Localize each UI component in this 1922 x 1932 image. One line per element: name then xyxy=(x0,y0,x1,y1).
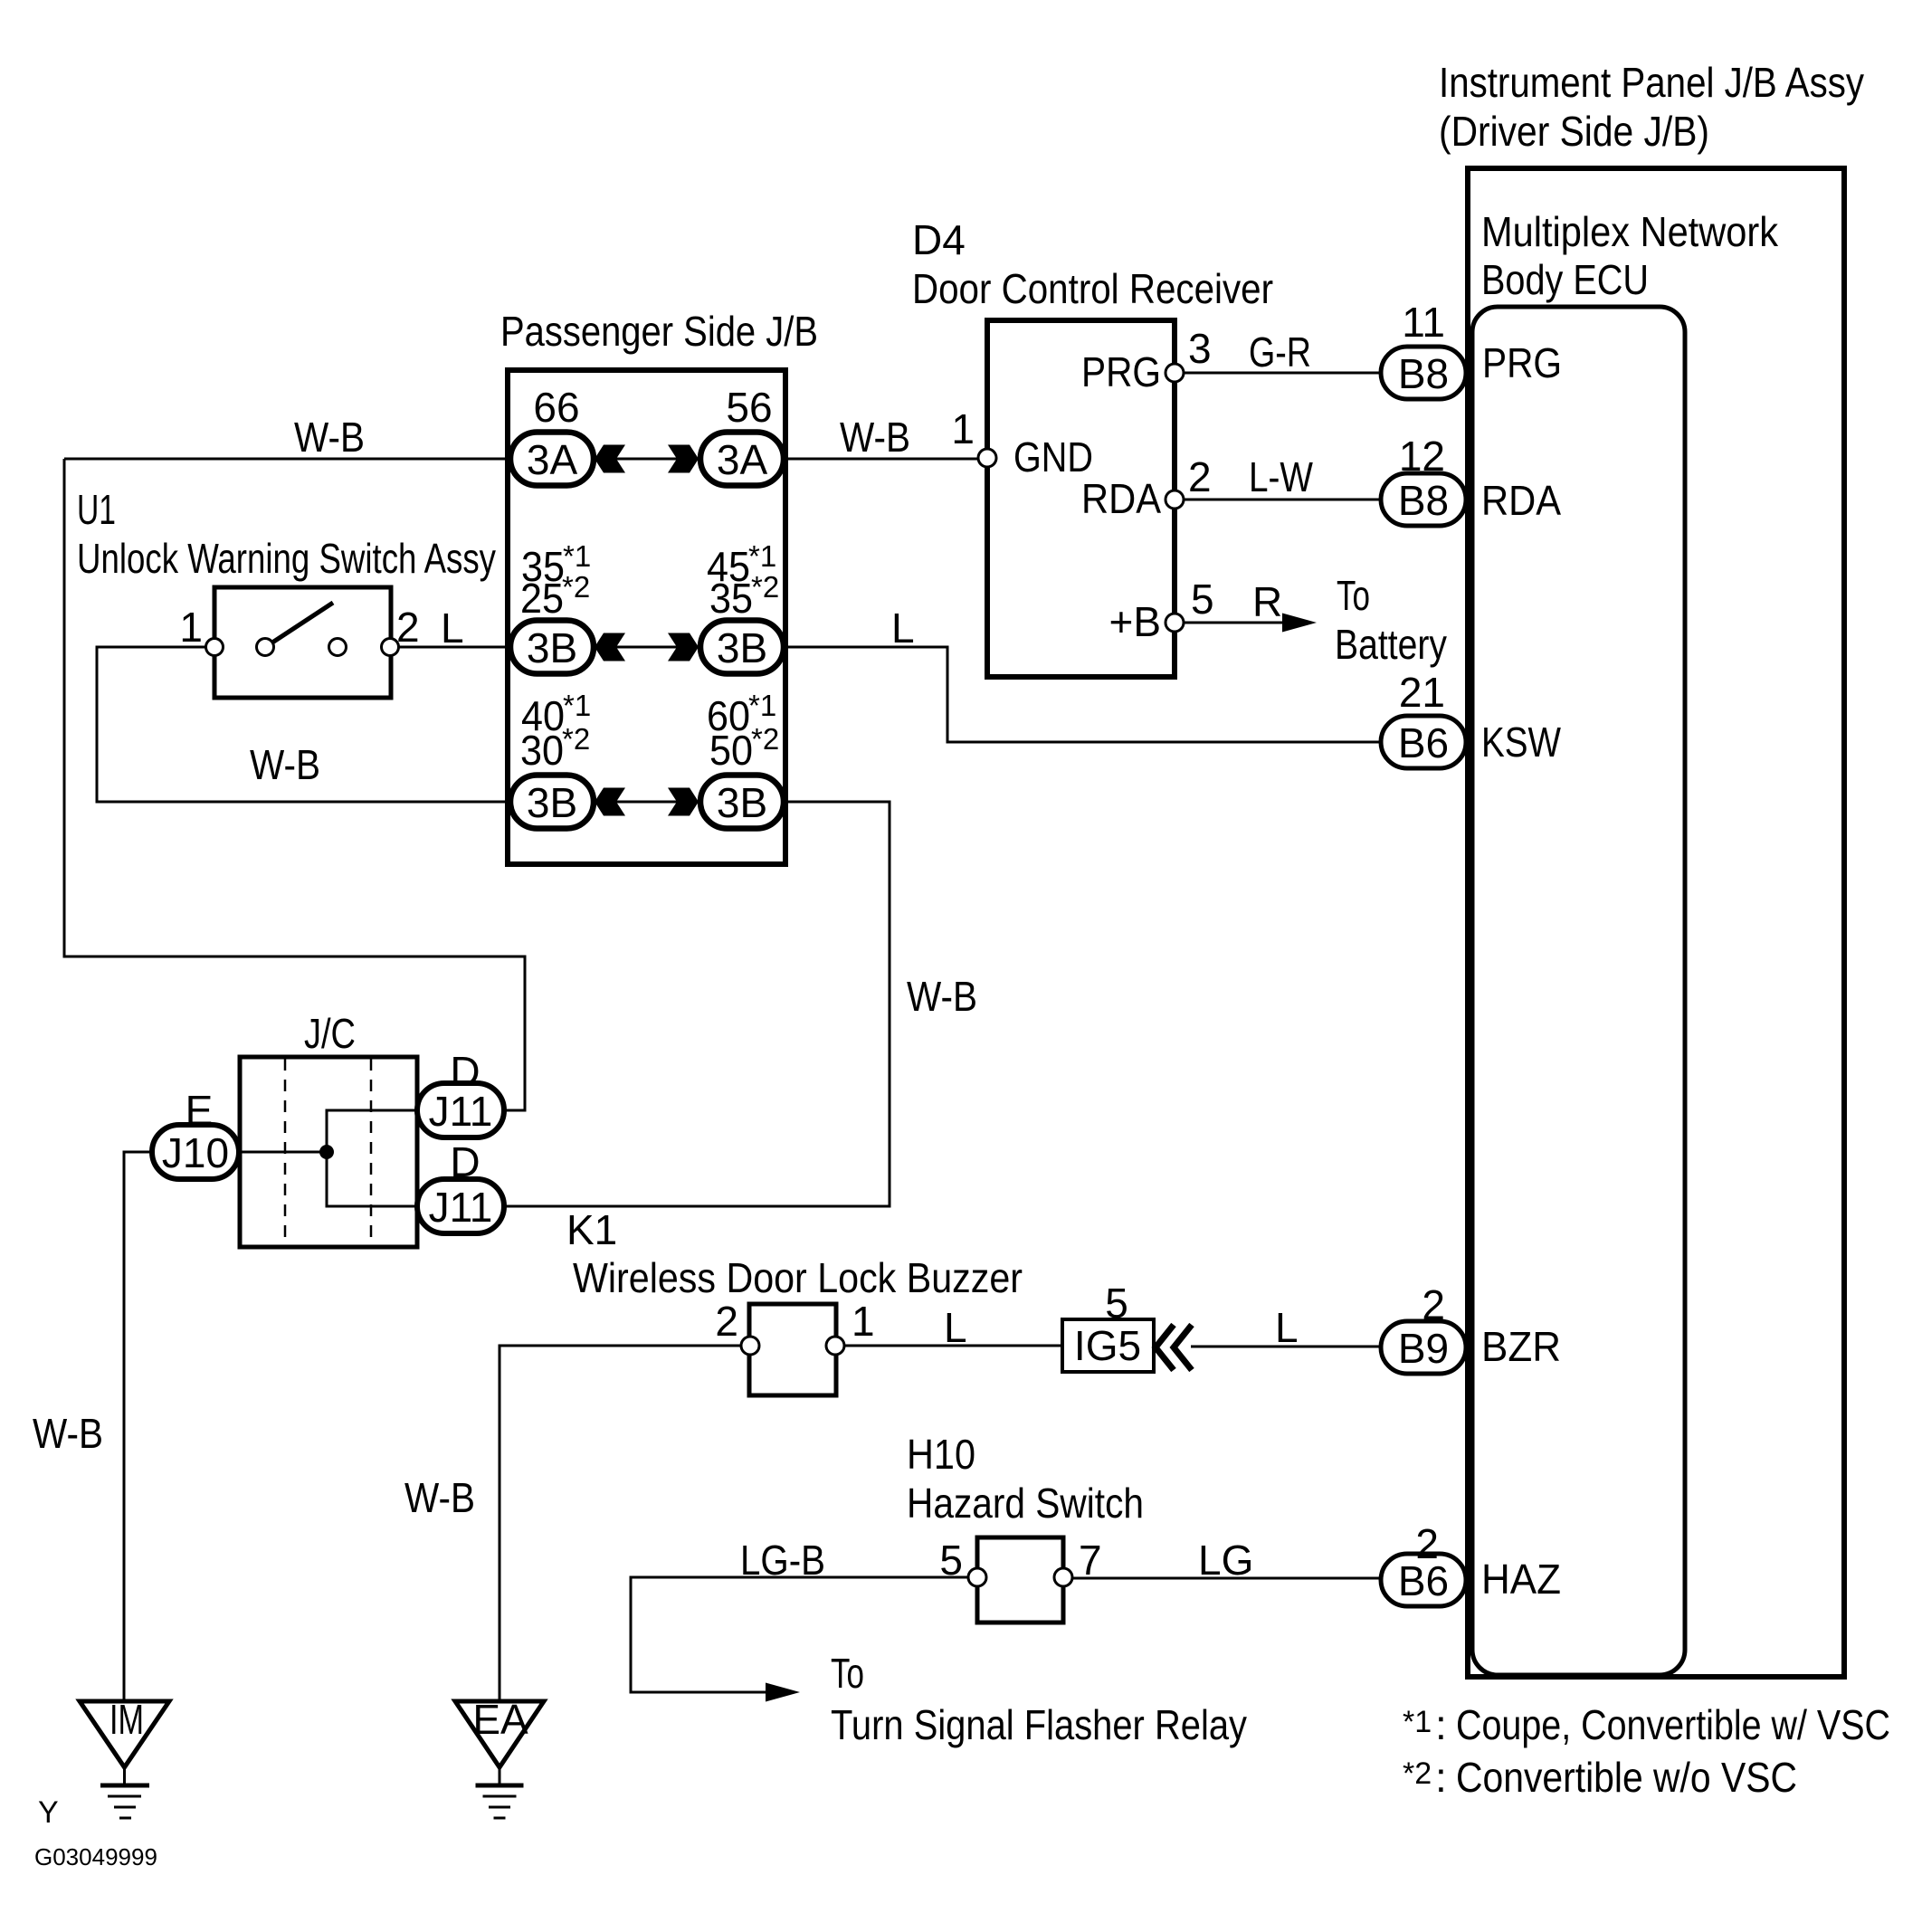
svg-text:11: 11 xyxy=(1402,299,1445,346)
arrowhead right row1 xyxy=(668,445,699,473)
wire J10 to IM ground xyxy=(124,1152,152,1701)
buzzer pin circle 1 xyxy=(826,1337,844,1355)
svg-text:(Driver Side J/B): (Driver Side J/B) xyxy=(1439,108,1709,155)
svg-text:12: 12 xyxy=(1399,433,1445,480)
svg-text:B6: B6 xyxy=(1398,1557,1449,1604)
svg-text:5: 5 xyxy=(1191,576,1214,623)
svg-text:G-R: G-R xyxy=(1249,328,1311,376)
svg-text:Convertible w/o VSC: Convertible w/o VSC xyxy=(1456,1754,1797,1801)
svg-text:D4: D4 xyxy=(912,216,966,263)
wire PRG to B8 G-R xyxy=(1184,372,1381,375)
svg-text:W-B: W-B xyxy=(907,973,977,1020)
ECU left edge overdraw xyxy=(1465,171,1470,1674)
arrowhead left row3 xyxy=(595,788,625,816)
svg-text:*2: *2 xyxy=(751,570,779,604)
svg-text:Multiplex Network: Multiplex Network xyxy=(1481,208,1779,255)
wire IG5 to B9 L xyxy=(1191,1346,1381,1348)
connector oval 3A left xyxy=(510,433,594,486)
arrow to turn signal flasher relay xyxy=(766,1683,800,1702)
svg-text:+B: +B xyxy=(1108,598,1161,645)
svg-text:Y: Y xyxy=(38,1795,59,1830)
svg-text:25: 25 xyxy=(520,575,564,622)
svg-text:3B: 3B xyxy=(527,779,577,826)
hazard pin circle 7 xyxy=(1054,1568,1072,1586)
svg-text:50: 50 xyxy=(709,727,753,774)
svg-text:LG-B: LG-B xyxy=(740,1537,825,1584)
door control receiver D4 box xyxy=(987,320,1175,677)
wire buzzer pin1 to IG5 xyxy=(844,1345,1062,1347)
svg-text:EA: EA xyxy=(472,1696,528,1743)
svg-text:Battery: Battery xyxy=(1335,621,1447,668)
switch contact circle a xyxy=(257,639,274,656)
wire 3B row3 gap link xyxy=(614,801,679,804)
ground EA line2 xyxy=(483,1795,517,1798)
wire LG-B from hazard pin5 to turn signal flasher relay xyxy=(631,1577,968,1692)
svg-text:W-B: W-B xyxy=(250,741,320,788)
arrowhead right row3 xyxy=(668,788,699,816)
svg-text:2: 2 xyxy=(1422,1281,1445,1328)
ground IM bar xyxy=(100,1784,149,1788)
svg-text:W-B: W-B xyxy=(294,414,365,461)
instrument panel J/B outer box xyxy=(1468,168,1844,1677)
svg-text:BZR: BZR xyxy=(1481,1323,1561,1370)
svg-text:LG: LG xyxy=(1198,1537,1253,1584)
svg-text:3A: 3A xyxy=(527,436,578,483)
svg-text:H10: H10 xyxy=(907,1431,975,1478)
svg-text:RDA: RDA xyxy=(1481,477,1561,524)
wireless door lock buzzer box xyxy=(749,1304,836,1395)
svg-text:1: 1 xyxy=(852,1298,875,1345)
svg-text:G03049999: G03049999 xyxy=(34,1843,157,1870)
svg-text:L: L xyxy=(1275,1304,1299,1351)
buzzer pin circle 2 xyxy=(741,1337,759,1355)
hazard pin circle 5 xyxy=(968,1568,986,1586)
svg-text:*1: *1 xyxy=(748,689,776,722)
svg-text:B8: B8 xyxy=(1398,350,1449,397)
wire left vertical W-B down from row1 xyxy=(64,459,525,1110)
svg-text:Unlock Warning Switch Assy: Unlock Warning Switch Assy xyxy=(77,535,496,582)
wire switch pin2 to left 3B row2 xyxy=(399,646,510,649)
wire J/C internal branch up to J11 top xyxy=(327,1110,417,1152)
svg-text:W-B: W-B xyxy=(404,1474,475,1521)
svg-text:Instrument Panel J/B Assy: Instrument Panel J/B Assy xyxy=(1439,59,1864,106)
svg-text:66: 66 xyxy=(533,384,579,431)
svg-text:HAZ: HAZ xyxy=(1481,1556,1561,1603)
wire L from right 3B row2 down to KSW B6 xyxy=(784,647,1381,742)
arrowhead left row2 xyxy=(595,633,625,661)
arrowhead right row2 xyxy=(668,633,699,661)
svg-text:5: 5 xyxy=(1105,1280,1128,1327)
connector oval J11 top xyxy=(417,1083,504,1137)
passenger side J/B box xyxy=(508,370,785,864)
svg-text:3B: 3B xyxy=(717,624,767,671)
svg-text:3: 3 xyxy=(1188,325,1212,372)
connector oval J10 xyxy=(152,1125,239,1179)
svg-text:B8: B8 xyxy=(1398,477,1449,524)
svg-text:35: 35 xyxy=(709,575,753,622)
connector oval B8 RDA xyxy=(1381,473,1466,526)
wire 3B row2 gap link xyxy=(614,646,679,649)
svg-text:E: E xyxy=(186,1087,214,1134)
connector oval B6 HAZ xyxy=(1381,1554,1466,1606)
connector oval J11 bottom xyxy=(417,1179,504,1233)
connector oval 3A right xyxy=(700,433,784,486)
svg-text:U1: U1 xyxy=(77,486,116,533)
ground EA line3 xyxy=(489,1806,510,1809)
svg-text:IM: IM xyxy=(109,1696,144,1743)
arrowhead left row1 xyxy=(595,445,625,473)
svg-text:5: 5 xyxy=(939,1537,963,1584)
svg-text:J11: J11 xyxy=(429,1088,493,1135)
svg-text:3A: 3A xyxy=(717,436,768,483)
arrow to battery xyxy=(1282,614,1317,633)
ground EA stem xyxy=(499,1767,501,1784)
switch blade xyxy=(272,603,333,642)
svg-text:R: R xyxy=(1252,578,1282,625)
svg-text:*2: *2 xyxy=(751,722,779,756)
svg-text:L: L xyxy=(944,1304,967,1351)
wire RDA to B8 L-W xyxy=(1184,499,1381,501)
svg-text:*2: *2 xyxy=(1403,1756,1432,1791)
wire 3A gap link xyxy=(614,458,679,461)
ground IM line4 xyxy=(119,1817,131,1820)
svg-text:*1: *1 xyxy=(748,539,776,573)
IG5 double chevron xyxy=(1156,1325,1192,1370)
svg-text:Hazard Switch: Hazard Switch xyxy=(907,1480,1144,1527)
switch pin circle 2 xyxy=(382,639,399,656)
svg-text:Body ECU: Body ECU xyxy=(1481,256,1649,303)
svg-text:RDA: RDA xyxy=(1081,475,1161,522)
wire J/C internal branch down to J11 bottom xyxy=(327,1152,417,1206)
junction dot in J/C xyxy=(319,1145,334,1159)
svg-text:L: L xyxy=(441,604,464,652)
svg-text:*2: *2 xyxy=(562,570,590,604)
svg-text::: : xyxy=(1435,1701,1447,1748)
ground EA bar xyxy=(476,1784,524,1788)
svg-text:L-W: L-W xyxy=(1249,453,1313,500)
svg-text:K1: K1 xyxy=(566,1206,617,1253)
svg-text:To: To xyxy=(831,1650,864,1697)
svg-text:J11: J11 xyxy=(429,1184,493,1231)
ground IM stem xyxy=(123,1767,126,1784)
svg-text::: : xyxy=(1435,1754,1447,1801)
connector oval B8 PRG xyxy=(1381,347,1466,399)
wire W-B from right 3A to D4 GND pin xyxy=(784,458,979,461)
ground IM line2 xyxy=(108,1795,141,1798)
svg-text:*1: *1 xyxy=(563,539,591,573)
J/C dashed line 1 xyxy=(284,1059,287,1246)
svg-text:IG5: IG5 xyxy=(1074,1322,1141,1369)
wire W-B row1 left from left vertical to 3A oval xyxy=(64,458,510,461)
svg-text:3B: 3B xyxy=(527,624,577,671)
svg-text:To: To xyxy=(1337,572,1370,619)
unlock warning switch U1 box xyxy=(214,587,391,698)
svg-text:W-B: W-B xyxy=(840,414,910,461)
connector oval 3B left row2 xyxy=(510,621,594,674)
svg-text:Turn Signal Flasher Relay: Turn Signal Flasher Relay xyxy=(831,1701,1247,1748)
svg-text:Coupe, Convertible w/ VSC: Coupe, Convertible w/ VSC xyxy=(1456,1701,1890,1748)
svg-text:PRG: PRG xyxy=(1482,339,1562,386)
svg-text:56: 56 xyxy=(726,384,772,431)
svg-text:Wireless Door Lock Buzzer: Wireless Door Lock Buzzer xyxy=(573,1254,1023,1301)
svg-text:30: 30 xyxy=(520,727,564,774)
D4 pin circle GND 1 xyxy=(978,449,996,467)
switch contact circle b xyxy=(329,639,347,656)
D4 pin circle PRG 3 xyxy=(1166,364,1184,382)
svg-text:1: 1 xyxy=(179,604,203,651)
svg-text:PRG: PRG xyxy=(1081,348,1161,395)
J/C dashed line 2 xyxy=(370,1059,373,1246)
IG5 fuse box xyxy=(1062,1319,1154,1372)
svg-text:2: 2 xyxy=(1188,453,1212,500)
svg-text:7: 7 xyxy=(1079,1537,1102,1584)
junction connector J/C box xyxy=(240,1057,417,1247)
switch pin circle 1 xyxy=(206,639,224,656)
svg-text:1: 1 xyxy=(951,405,975,452)
ground IM triangle xyxy=(80,1701,169,1767)
multiplex network body ECU rounded box xyxy=(1472,307,1685,1675)
svg-text:J10: J10 xyxy=(162,1129,229,1176)
svg-text:*2: *2 xyxy=(562,722,590,756)
D4 pin circle RDA 2 xyxy=(1166,490,1184,509)
svg-text:*1: *1 xyxy=(1403,1705,1432,1739)
hazard switch H10 box xyxy=(977,1537,1063,1623)
ground IM line3 xyxy=(114,1806,136,1809)
svg-text:KSW: KSW xyxy=(1481,719,1561,766)
svg-text:Door Control Receiver: Door Control Receiver xyxy=(912,265,1273,312)
wire switch pin1 loop to row3 3B xyxy=(97,647,510,802)
wire W-B from right 3B row3 down to J11 K1 xyxy=(504,802,890,1206)
D4 pin circle +B 5 xyxy=(1166,614,1184,632)
svg-text:L: L xyxy=(891,604,915,652)
svg-text:21: 21 xyxy=(1399,669,1445,716)
svg-text:2: 2 xyxy=(396,604,420,651)
connector oval 3B right row2 xyxy=(700,621,784,674)
wire +B to battery R xyxy=(1184,622,1305,624)
wire LG from hazard pin7 to B6 HAZ xyxy=(1072,1577,1381,1580)
svg-text:Passenger Side J/B: Passenger Side J/B xyxy=(500,308,818,355)
ground EA triangle xyxy=(455,1701,544,1767)
connector oval B6 KSW xyxy=(1381,716,1466,768)
svg-text:*1: *1 xyxy=(563,689,591,722)
wire J/C internal from J10 to junction xyxy=(240,1151,327,1154)
svg-text:B6: B6 xyxy=(1398,719,1449,766)
svg-text:D: D xyxy=(450,1138,480,1185)
svg-text:3B: 3B xyxy=(717,779,767,826)
svg-text:B9: B9 xyxy=(1398,1325,1449,1372)
wire buzzer pin2 to EA ground xyxy=(500,1346,741,1701)
svg-text:J/C: J/C xyxy=(304,1010,356,1057)
connector oval 3B right row3 xyxy=(700,776,784,829)
svg-text:GND: GND xyxy=(1013,433,1093,481)
ground EA line4 xyxy=(494,1817,506,1820)
svg-text:W-B: W-B xyxy=(33,1410,103,1457)
connector oval B9 BZR xyxy=(1381,1321,1466,1374)
connector oval 3B left row3 xyxy=(510,776,594,829)
svg-text:2: 2 xyxy=(715,1298,738,1345)
